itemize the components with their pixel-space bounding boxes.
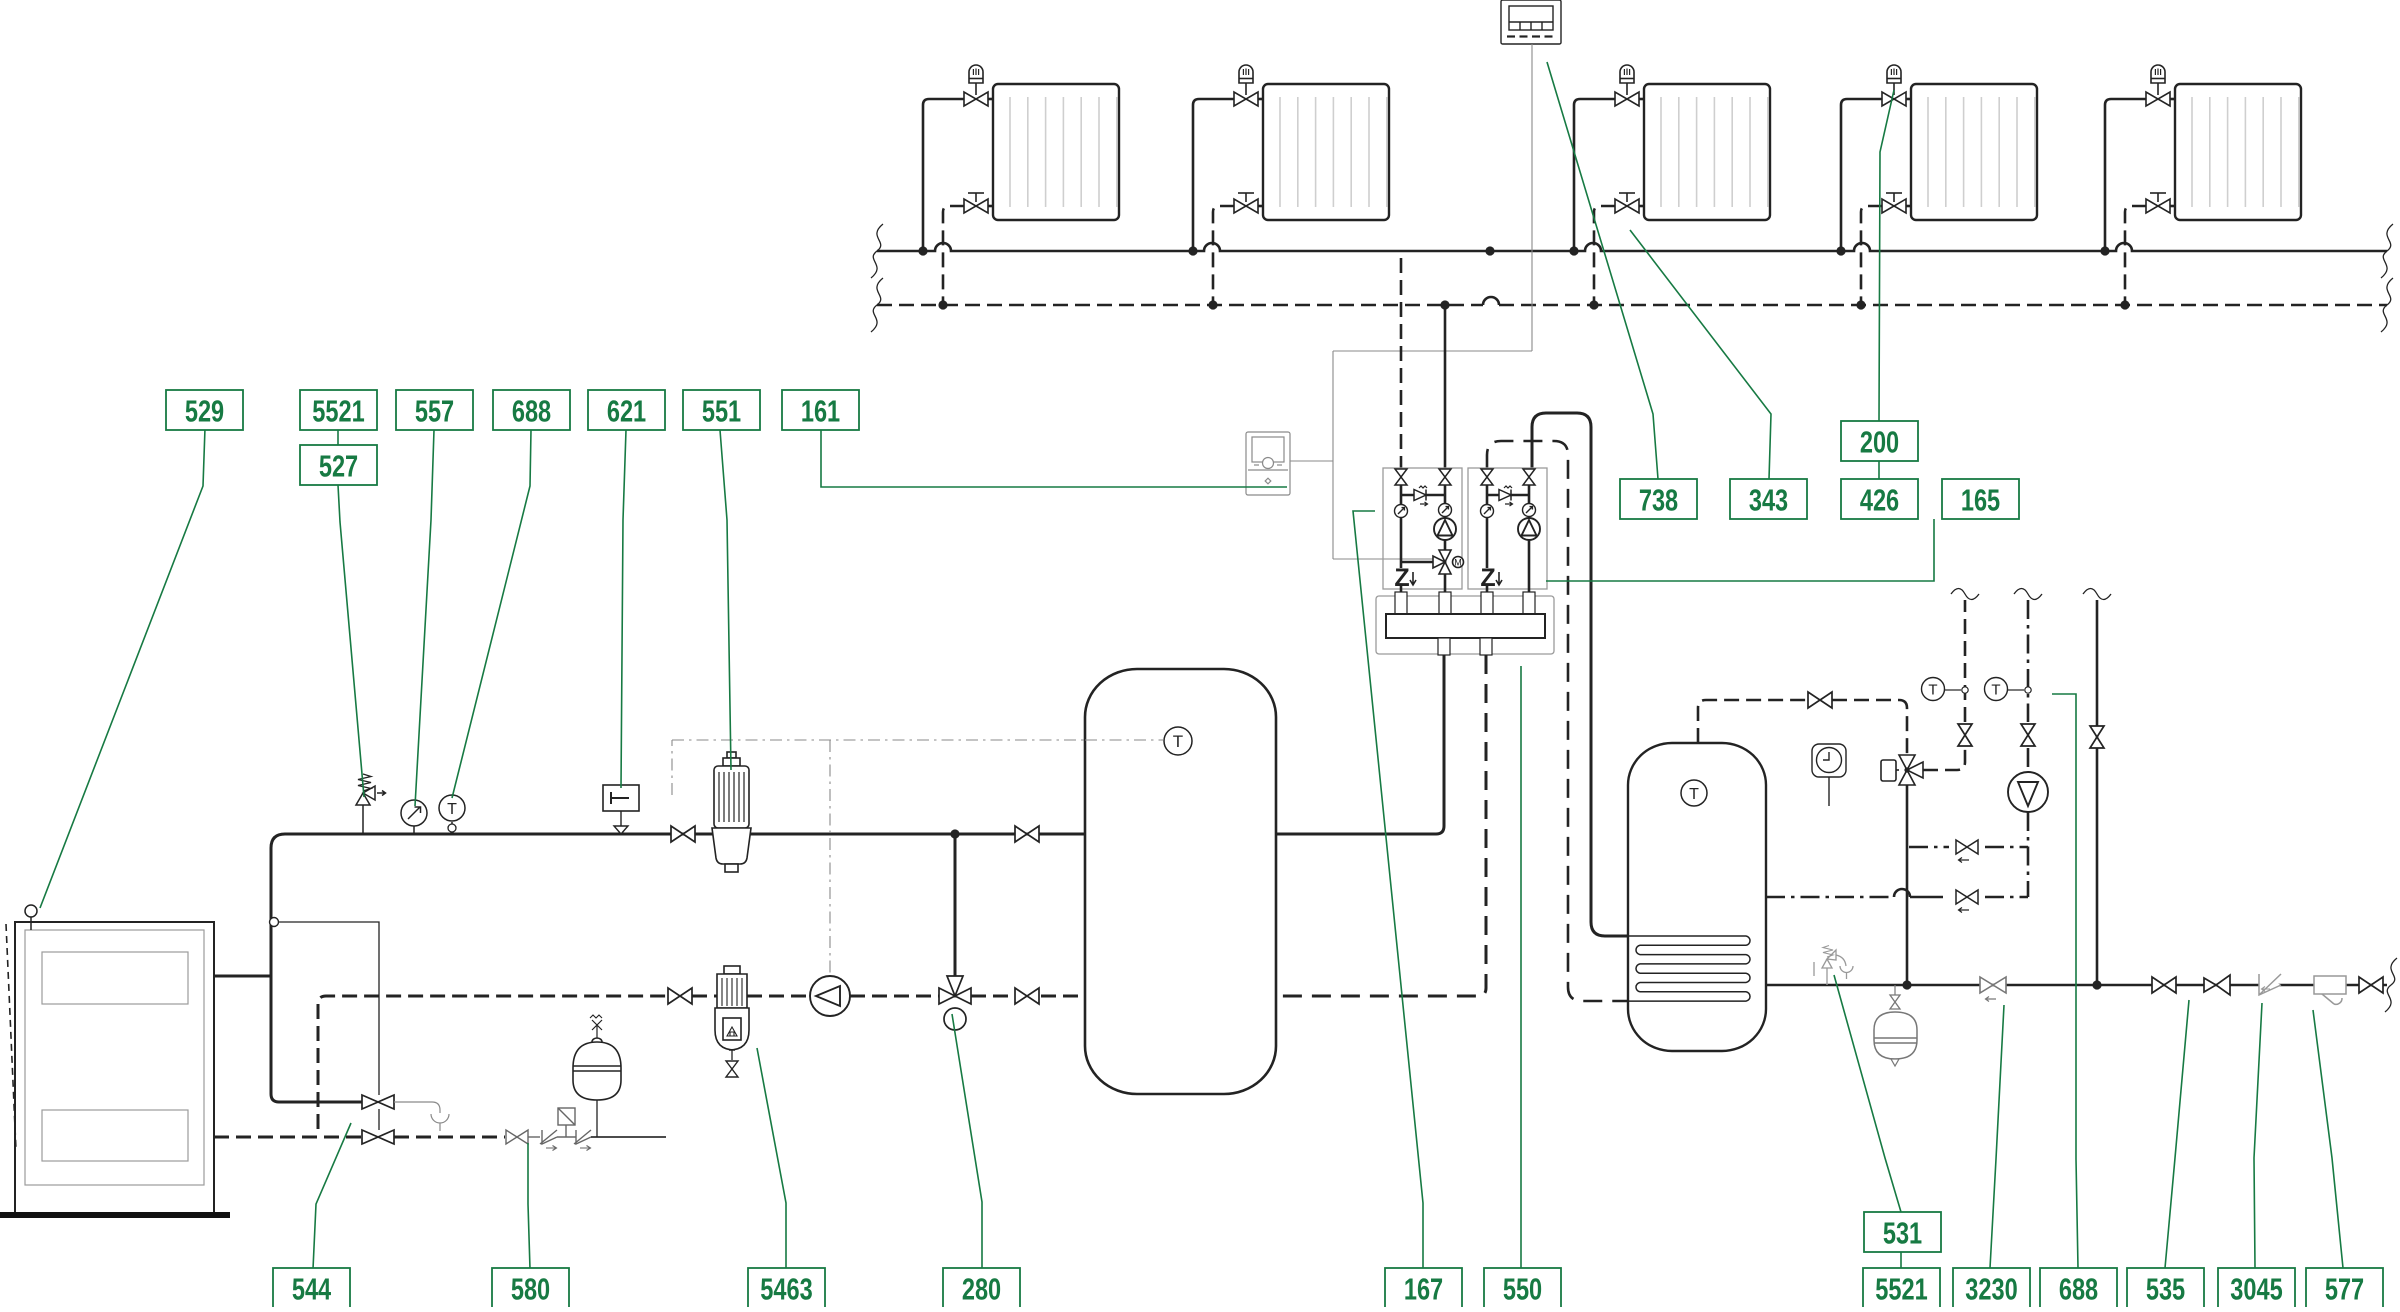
- svg-text:544: 544: [292, 1271, 332, 1306]
- svg-text:529: 529: [185, 393, 224, 428]
- svg-text:535: 535: [2146, 1271, 2185, 1306]
- svg-text:5463: 5463: [760, 1271, 812, 1306]
- svg-text:200: 200: [1860, 424, 1899, 459]
- svg-text:T: T: [447, 801, 457, 818]
- svg-text:M: M: [1454, 558, 1462, 568]
- svg-text:551: 551: [702, 393, 741, 428]
- svg-text:3230: 3230: [1965, 1271, 2017, 1306]
- svg-text:165: 165: [1961, 482, 2000, 517]
- svg-text:167: 167: [1404, 1271, 1443, 1306]
- svg-text:3045: 3045: [2230, 1271, 2282, 1306]
- svg-text:161: 161: [801, 393, 840, 428]
- svg-text:557: 557: [415, 393, 454, 428]
- svg-text:5521: 5521: [312, 393, 364, 428]
- svg-text:Z: Z: [1394, 564, 1409, 592]
- svg-text:550: 550: [1503, 1271, 1542, 1306]
- svg-text:527: 527: [319, 448, 358, 483]
- svg-text:577: 577: [2325, 1271, 2364, 1306]
- svg-text:738: 738: [1639, 482, 1678, 517]
- svg-text:426: 426: [1860, 482, 1899, 517]
- svg-text:343: 343: [1749, 482, 1788, 517]
- svg-text:688: 688: [512, 393, 551, 428]
- svg-text:T: T: [1173, 732, 1183, 751]
- svg-text:5521: 5521: [1875, 1271, 1927, 1306]
- svg-text:621: 621: [607, 393, 646, 428]
- svg-text:580: 580: [511, 1271, 550, 1306]
- svg-text:T: T: [1689, 786, 1699, 803]
- svg-text:531: 531: [1883, 1215, 1922, 1250]
- svg-text:688: 688: [2059, 1271, 2098, 1306]
- svg-text:280: 280: [962, 1271, 1001, 1306]
- svg-text:Z: Z: [1480, 564, 1495, 592]
